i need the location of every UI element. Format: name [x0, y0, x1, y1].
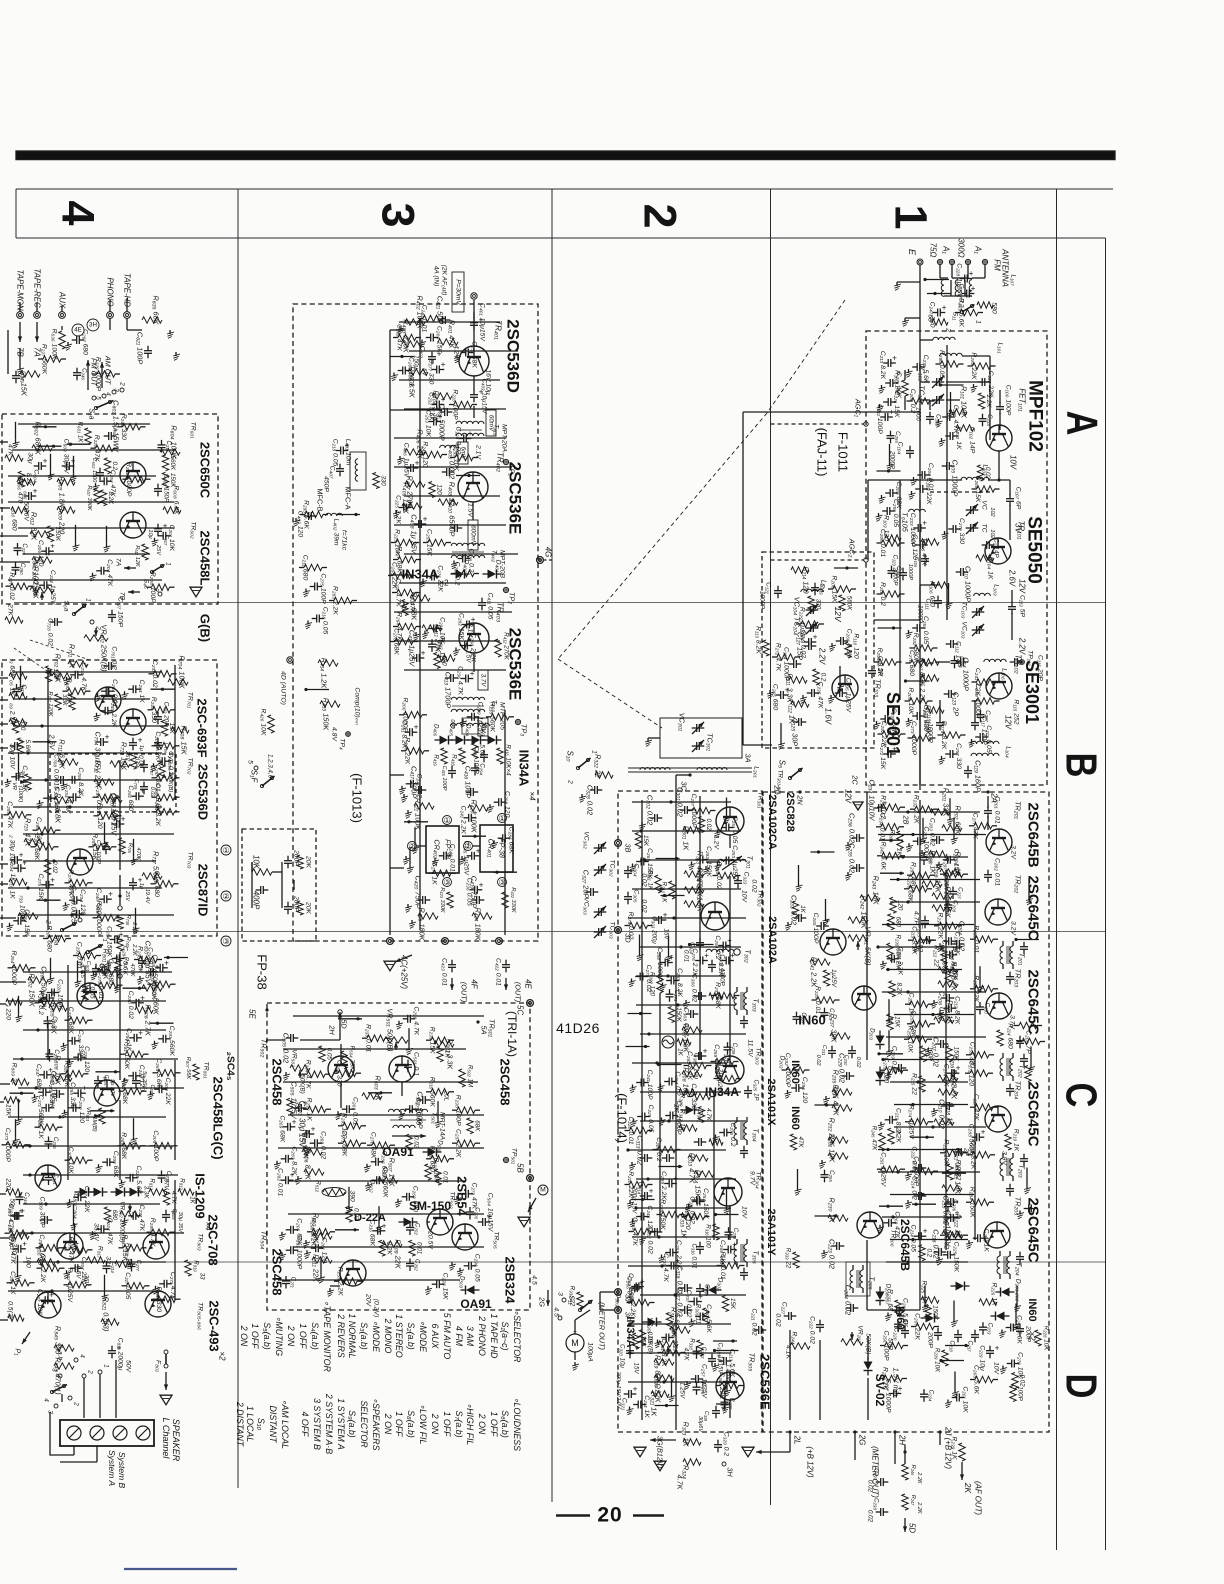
coil L101 primary — [933, 337, 955, 340]
capacitor C701 0.2 — [108, 662, 110, 670]
svg-text:+: + — [50, 875, 55, 884]
svg-text:C₂₄₁ 2.2K: C₂₄₁ 2.2K — [460, 806, 467, 835]
circled 3 b — [498, 878, 507, 887]
circled 1 b — [498, 814, 507, 823]
resistor R317 5.6K — [670, 1327, 690, 1333]
capacitor C237 0.02 — [880, 1478, 882, 1486]
long interconnect wires region3 top — [399, 321, 500, 323]
svg-text:2: 2 — [119, 381, 126, 386]
svg-text:C₂₃₉: C₂₃₉ — [731, 1043, 738, 1055]
svg-text:C₂₃₉ 4.7K: C₂₃₉ 4.7K — [662, 1253, 669, 1282]
capacitor C123 2000P — [899, 572, 907, 574]
svg-text:AGC₂: AGC₂ — [848, 538, 857, 558]
triangle out right — [190, 587, 202, 597]
resistor R410 68K — [410, 595, 430, 601]
bus rails region1 — [946, 345, 948, 620]
svg-text:2SC458LG(C): 2SC458LG(C) — [211, 1076, 226, 1159]
capacitor C709 0.02 — [140, 786, 148, 788]
svg-text:C₂₆₅ 150K: C₂₆₅ 150K — [646, 848, 653, 879]
svg-text:R₃₃₃ 22: R₃₃₃ 22 — [785, 1248, 792, 1269]
svg-text:R₂₀₁ 33K: R₂₀₁ 33K — [942, 788, 951, 818]
capacitor C202 0.01 — [984, 874, 992, 876]
svg-text:D₄₀₆: D₄₀₆ — [433, 724, 440, 737]
svg-text:200P: 200P — [293, 895, 300, 912]
transistor TR102 SE3001 — [986, 673, 1012, 699]
svg-text:C: C — [1056, 1083, 1105, 1108]
resistor R408 22 — [438, 499, 458, 505]
svg-text:0.2: 0.2 — [820, 673, 827, 682]
svg-text:R₂₁₉ 1K: R₂₁₉ 1K — [1013, 1129, 1020, 1152]
svg-text:3: 3 — [373, 202, 424, 227]
diodes D403-D406 row — [440, 736, 449, 745]
svg-text:R₂₁₈ 1K: R₂₁₈ 1K — [946, 1102, 955, 1127]
svg-text:VR₅₀₁ 50K(B): VR₅₀₁ 50K(B) — [386, 1008, 395, 1051]
svg-text:+: + — [415, 459, 420, 468]
resistor R222 1K — [942, 1231, 962, 1237]
capacitor C215 1u25V — [950, 1214, 952, 1222]
resistor R104 1K — [976, 555, 994, 561]
svg-text:0.02: 0.02 — [705, 818, 712, 831]
transistor TR601 — [120, 462, 146, 488]
svg-text:5E: 5E — [248, 1009, 257, 1019]
capacitor C305 0.02 — [624, 896, 632, 898]
component texture IF left column — [811, 851, 835, 853]
fold line row A/B — [14, 602, 1105, 604]
svg-text:₆₀₆ 50μ6V: ₆₀₆ 50μ6V — [23, 491, 30, 522]
svg-text:C₃₂₇ 20P: C₃₂₇ 20P — [582, 870, 591, 899]
input label box P=30mV — [452, 272, 464, 312]
svg-text:+: + — [43, 457, 48, 466]
svg-text:10V: 10V — [1009, 455, 1018, 470]
capacitor C123b 2P — [948, 690, 950, 698]
svg-text:C₂₆₉ 0.02: C₂₆₉ 0.02 — [320, 1131, 327, 1159]
fold line row C/D — [14, 1261, 1105, 1263]
svg-text:R₂₄₆: R₂₄₆ — [910, 1465, 916, 1476]
capacitor C730 0.01 — [138, 960, 146, 962]
svg-text:0.02: 0.02 — [867, 1510, 874, 1523]
resistor R102 1M — [902, 380, 908, 396]
svg-text:TP₄: TP₄ — [339, 738, 346, 750]
svg-text:2.6V: 2.6V — [1008, 569, 1017, 587]
transistor TR805 — [35, 1292, 61, 1318]
svg-text:C₈₀₉ 300P: C₈₀₉ 300P — [39, 1196, 46, 1228]
diode D302 — [708, 1286, 717, 1295]
capacitor C203 0.02 — [936, 836, 938, 844]
diode D206 — [876, 1292, 885, 1301]
switch S6a cluster — [72, 612, 75, 615]
capacitor C421 50P — [442, 316, 444, 324]
svg-text:R₂₉₇ 1μ25V: R₂₉₇ 1μ25V — [943, 857, 950, 893]
svg-text:3: 3 — [557, 1292, 564, 1296]
svg-text:1: 1 — [85, 598, 92, 601]
svg-text:C₂₂₂ 0.02: C₂₂₂ 0.02 — [809, 1316, 816, 1344]
capacitor C317 0.02 — [684, 1306, 686, 1314]
preamp dashed box — [2, 414, 218, 604]
svg-text:15K: 15K — [894, 1016, 901, 1028]
resistor R206 10K — [922, 881, 942, 887]
svg-text:4 OFF: 4 OFF — [300, 1412, 310, 1438]
coil T0105 — [909, 509, 926, 512]
svg-text:D₅₀₁: D₅₀₁ — [437, 1140, 444, 1152]
svg-text:TR₇₀₃: TR₇₀₃ — [187, 851, 194, 868]
resistor R425 180K — [418, 913, 438, 919]
svg-text:C₂₈₆ 68K: C₂₈₆ 68K — [508, 827, 515, 855]
svg-text:15V: 15V — [633, 1362, 640, 1374]
svg-text:C₄₀₁ 10μ15V: C₄₀₁ 10μ15V — [479, 303, 486, 342]
svg-text:TR₄₀₂: TR₄₀₂ — [496, 452, 505, 472]
capacitor C210 0.02 — [946, 1102, 948, 1110]
switch selector S1a cluster — [87, 360, 89, 390]
svg-text:C₂₈₈ 22K: C₂₈₈ 22K — [925, 477, 932, 505]
svg-text:+: + — [704, 951, 709, 960]
svg-text:C₂₈₄ 15K: C₂₈₄ 15K — [23, 909, 30, 937]
svg-text:2SC-493: 2SC-493 — [207, 1300, 222, 1351]
transistor TR702 — [120, 709, 146, 735]
transformer T204 — [997, 1256, 1000, 1274]
screw terminal 3 — [113, 1426, 127, 1440]
resistor R421 100K — [414, 803, 434, 809]
svg-text:10μ: 10μ — [147, 529, 153, 538]
capacitor C708b 0.0015 — [60, 776, 62, 784]
svg-text:D₄₀₅: D₄₀₅ — [449, 724, 456, 737]
svg-text:+: + — [730, 951, 735, 960]
resistor R237 39K — [830, 1033, 850, 1039]
svg-text:2SC828: 2SC828 — [784, 792, 796, 832]
svg-text:R₆₀₅ 1.8K: R₆₀₅ 1.8K — [58, 476, 67, 508]
arrow P1 — [22, 1332, 30, 1344]
resistor R205 1K — [897, 831, 903, 849]
long interconnect wires preamp — [18, 423, 150, 425]
diode D301 — [686, 1106, 695, 1115]
diodes D801-804 — [80, 1188, 89, 1197]
oscillator dashed box — [762, 552, 874, 748]
svg-text:C₂₆₅ 100P: C₂₆₅ 100P — [812, 913, 819, 944]
diode D501 — [428, 1148, 437, 1157]
resistor R203 1K — [929, 851, 947, 857]
svg-text:T₃₀₁: T₃₀₁ — [746, 856, 755, 869]
grid header line bottom — [16, 237, 1106, 239]
transistor TR803 — [57, 1233, 83, 1259]
connector bottom b — [442, 938, 449, 945]
svg-text:1K: 1K — [189, 1196, 196, 1204]
svg-text:C₂₃₈: C₂₃₈ — [986, 414, 993, 426]
transistor TR804 — [143, 1233, 169, 1259]
resistor R707 120K — [55, 694, 61, 710]
svg-text:C₂₁₇: C₂₁₇ — [967, 1341, 974, 1353]
svg-text:C₂₆₀ 2.2K: C₂₆₀ 2.2K — [470, 633, 477, 662]
svg-text:D₂₀₆,₂₀₇: D₂₀₆,₂₀₇ — [885, 1284, 892, 1306]
svg-text:2SC458L: 2SC458L — [198, 531, 213, 586]
terminal 4A — [471, 293, 477, 299]
svg-text:∘SELECTOR: ∘SELECTOR — [512, 1310, 522, 1363]
transistor TR202 2SC645C — [985, 899, 1011, 925]
long interconnect wires IF strip — [894, 811, 980, 813]
svg-text:50K(B): 50K(B) — [299, 1074, 306, 1093]
svg-text:C₂₄₄: C₂₄₄ — [23, 1192, 30, 1204]
svg-text:50V: 50V — [125, 1360, 132, 1374]
resistor R229 10K — [942, 1350, 948, 1366]
resistor R845 330 — [54, 1345, 74, 1351]
svg-text:C₂₀₁ 0.01: C₂₀₁ 0.01 — [994, 796, 1001, 824]
resistor R232 22K — [828, 1137, 848, 1143]
svg-text:DISTANT: DISTANT — [268, 1406, 278, 1444]
svg-text:5D: 5D — [908, 1523, 917, 1533]
transformer T301 — [718, 859, 746, 862]
svg-text:₀₅ 1K: ₀₅ 1K — [9, 680, 16, 696]
region2 bus wires — [675, 792, 677, 1430]
resistor R642 100 — [32, 557, 52, 563]
svg-text:+: + — [441, 360, 446, 369]
svg-text:C₃₂₃: C₃₂₃ — [743, 872, 750, 885]
svg-text:SE5050: SE5050 — [1024, 516, 1045, 584]
switch S8a — [86, 950, 89, 953]
component texture IF stage rows — [882, 804, 900, 811]
svg-text:C₂₀₈ 560K: C₂₀₈ 560K — [408, 357, 415, 388]
resistor R302 120 — [657, 975, 663, 993]
svg-text:680: 680 — [441, 655, 448, 666]
svg-text:3.2V: 3.2V — [1010, 921, 1017, 936]
capacitor C706 — [154, 742, 162, 744]
svg-text:R₂₄₂ 150K: R₂₄₂ 150K — [860, 896, 869, 930]
svg-text:+: + — [414, 723, 419, 732]
resistor R407 270K — [405, 481, 425, 487]
capacitor C112 14P — [950, 640, 952, 648]
capacitor C713 1u25V — [129, 882, 137, 884]
svg-text:MFC-A: MFC-A — [344, 486, 353, 509]
svg-text:0.02: 0.02 — [855, 1057, 861, 1069]
svg-text:f=71kc: f=71kc — [341, 530, 348, 551]
svg-text:(0.2V): (0.2V) — [373, 1299, 380, 1318]
pot VR101 250K — [30, 587, 54, 593]
resistor R405 1.5K — [408, 369, 428, 375]
capacitor C808 30u35V — [162, 1214, 170, 1216]
svg-text:C₂₁₁ 100P: C₂₁₁ 100P — [876, 404, 883, 434]
svg-text:C₂₉₅ 330: C₂₉₅ 330 — [69, 1082, 76, 1108]
coil L104 double — [971, 741, 999, 744]
svg-text:2 ON: 2 ON — [383, 1413, 393, 1435]
long interconnect wires region2 — [632, 801, 731, 803]
svg-text:C₂₂₀ 5.6K: C₂₂₀ 5.6K — [705, 1304, 712, 1333]
svg-text:R₃₀₁ 1K: R₃₀₁ 1K — [682, 826, 691, 852]
trimmer TC104 — [810, 624, 812, 632]
resistor R816 33 — [37, 1259, 55, 1265]
diode D402 — [456, 570, 465, 579]
transistor TR501 — [389, 1056, 415, 1082]
resistor R713 10K — [102, 797, 122, 803]
svg-text:TR₈₀₁: TR₈₀₁ — [203, 1062, 210, 1079]
svg-text:TR₂₀₃: TR₂₀₃ — [1014, 969, 1023, 988]
svg-text:VC₃₀₂: VC₃₀₂ — [583, 831, 590, 849]
svg-text:C₈₁₁ 2000μ: C₈₁₁ 2000μ — [117, 1338, 124, 1371]
svg-text:R₄₁₈: R₄₁₈ — [451, 754, 458, 766]
capacitor C313 0.02 — [644, 1154, 646, 1162]
svg-text:5 FM AUTO: 5 FM AUTO — [442, 1313, 452, 1360]
component texture region3 left lower — [304, 564, 322, 570]
capacitor C504 10u15V — [482, 1218, 484, 1226]
svg-text:R₂₂₈ 10K: R₂₂₈ 10K — [1043, 1326, 1050, 1351]
svg-text:4D (AUTO): 4D (AUTO) — [280, 671, 287, 705]
svg-text:C₂₃₅ 5.6K: C₂₃₅ 5.6K — [922, 355, 929, 384]
circled 2 a — [408, 842, 417, 851]
coil T205 bottom — [850, 1270, 853, 1288]
resistor R230 1K — [828, 1215, 848, 1221]
capacitor C801 0.5 — [92, 968, 100, 970]
svg-text:15K: 15K — [642, 835, 649, 847]
svg-text:1: 1 — [886, 204, 937, 229]
resistor 580 — [977, 302, 993, 308]
svg-text:R₄₁₅ 150K: R₄₁₅ 150K — [322, 698, 331, 732]
svg-text:1 LOCAL: 1 LOCAL — [245, 1406, 255, 1442]
svg-text:102: 102 — [989, 507, 995, 517]
resistor R416 10Kx4 — [497, 748, 503, 764]
resistor R608 6.8K — [163, 507, 181, 513]
resistor R715 47K — [24, 839, 44, 845]
svg-text:0.01: 0.01 — [137, 755, 144, 767]
svg-text:C₃₂₀ 10μ: C₃₂₀ 10μ — [619, 1344, 626, 1368]
capacitor C419 750P — [476, 896, 478, 904]
svg-text:②: ② — [222, 892, 229, 901]
capacitor C403 10u15V — [470, 394, 478, 396]
capacitor C728 0.02 — [54, 618, 56, 626]
svg-text:15K: 15K — [168, 723, 175, 735]
svg-text:C₂₆₇ 1000P: C₂₆₇ 1000P — [675, 1100, 682, 1135]
svg-text:2 ON: 2 ON — [239, 1325, 249, 1347]
svg-text:∘AM LOCAL: ∘AM LOCAL — [280, 1399, 290, 1449]
svg-text:VC₃₀₃: VC₃₀₃ — [583, 897, 590, 915]
svg-text:TP₅₀₁: TP₅₀₁ — [511, 1148, 518, 1164]
resistor R711 6.8K — [58, 759, 78, 765]
svg-text:D: D — [1056, 1374, 1105, 1399]
resistor R606 470 — [17, 479, 35, 485]
gang linkage dashed diagonal upper — [767, 300, 845, 413]
capacitor C707 0.04 — [140, 764, 148, 766]
resistor R415 150K — [320, 701, 340, 707]
svg-text:+: + — [649, 1187, 654, 1196]
svg-text:+: + — [476, 846, 481, 855]
transistor TR201 2SC645B — [986, 829, 1012, 855]
svg-text:1K: 1K — [444, 1050, 451, 1058]
resistor R307 68K — [682, 1027, 702, 1033]
svg-text:MPF102: MPF102 — [1025, 380, 1046, 452]
svg-text:+: + — [108, 890, 113, 899]
svg-text:+: + — [698, 1292, 703, 1301]
testpoint TP501 — [503, 1157, 508, 1162]
svg-text:TC: TC — [981, 523, 988, 532]
svg-text:C₂₅₇ 330: C₂₅₇ 330 — [955, 743, 962, 769]
svg-text:C₂₆₆ 8.2K: C₂₆₆ 8.2K — [846, 629, 853, 658]
component texture preamp box — [15, 422, 17, 440]
svg-text:₇₁₈ 1K: ₇₁₈ 1K — [9, 881, 16, 899]
svg-text:150K: 150K — [932, 1305, 939, 1320]
svg-text:C₂₄₃ 0.2: C₂₄₃ 0.2 — [167, 751, 174, 775]
transformer T203 — [1000, 1158, 1003, 1176]
svg-text:R₂₄₅ 47K: R₂₄₅ 47K — [871, 1126, 878, 1151]
resistor R409 1.5K — [402, 503, 422, 509]
capacitor C222 0.02 — [816, 1324, 824, 1326]
svg-text:11.5V: 11.5V — [747, 1039, 754, 1058]
resistor R216 6.8K — [938, 1075, 958, 1081]
resistor R401 47K — [438, 339, 458, 345]
svg-text:(TRI-1A): (TRI-1A) — [505, 1011, 519, 1057]
svg-text:2SC458: 2SC458 — [498, 1059, 513, 1106]
screw terminal 4 — [136, 1426, 150, 1440]
svg-text:∘TAPE MONITOR: ∘TAPE MONITOR — [322, 1300, 332, 1372]
svg-text:150K: 150K — [54, 527, 61, 542]
svg-text:R₂₇₄ 1μ25V: R₂₇₄ 1μ25V — [908, 1105, 915, 1141]
svg-text:C₂₀₂ 0.01: C₂₀₂ 0.01 — [994, 858, 1001, 886]
capacitor C411 0.05 — [478, 602, 486, 604]
svg-text:0.5(3): 0.5(3) — [7, 1301, 14, 1319]
resistor R107 8.2K — [921, 659, 939, 665]
trimmer TC102 — [970, 524, 972, 532]
resistor R601 1K — [85, 428, 91, 444]
svg-text:C₂₈₂ 15K: C₂₈₂ 15K — [458, 613, 465, 640]
svg-text:1,2,3,4,6: 1,2,3,4,6 — [267, 754, 274, 779]
transistor TR402 2SC536E — [458, 472, 488, 502]
resistor R701 1K — [68, 661, 88, 667]
svg-text:5B: 5B — [516, 1163, 525, 1173]
transistor TR602 — [120, 512, 146, 538]
svg-text:C₂₄₆ 0.01: C₂₄₆ 0.01 — [449, 844, 456, 872]
transformer T304 — [734, 1122, 737, 1140]
svg-text:T₃₀₃: T₃₀₃ — [752, 998, 761, 1011]
svg-text:C₂₄₁ 100P: C₂₄₁ 100P — [646, 1069, 653, 1100]
transistor TR304 2SA101Y — [714, 1178, 742, 1206]
svg-text:1 TAPE HD: 1 TAPE HD — [489, 1314, 499, 1359]
svg-text:2 ON: 2 ON — [430, 1413, 440, 1435]
svg-text:TR₁₀₂: TR₁₀₂ — [1014, 654, 1023, 673]
svg-text:C₂₃₄ 5.6K: C₂₃₄ 5.6K — [64, 785, 71, 814]
grid header line top — [16, 188, 1113, 190]
svg-text:S₁₀: S₁₀ — [256, 1418, 266, 1431]
svg-text:47K: 47K — [952, 969, 959, 981]
svg-text:+: + — [20, 1206, 25, 1215]
svg-text:1 OFF: 1 OFF — [442, 1412, 452, 1438]
svg-text:R₅₁₂: R₅₁₂ — [315, 1180, 322, 1193]
svg-text:R₈₁₃: R₈₁₃ — [179, 1178, 186, 1190]
svg-text:C₄₂₃ 0.01: C₄₂₃ 0.01 — [441, 958, 448, 986]
svg-text:1 OFF: 1 OFF — [394, 1412, 404, 1438]
transistor TR upper left — [35, 1165, 61, 1191]
svg-text:R₁₁₅ 252: R₁₁₅ 252 — [1013, 699, 1020, 724]
arrow 7B — [19, 322, 21, 342]
capacitor C101 1000P — [926, 416, 934, 418]
svg-text:C₁₂₃ 2P: C₁₂₃ 2P — [952, 692, 961, 716]
svg-text:C₇₀₁ 0.2: C₇₀₁ 0.2 — [111, 646, 118, 670]
svg-text:IN34A: IN34A — [517, 750, 532, 787]
resistor R221 10K — [942, 1185, 962, 1191]
column divider 4/3 — [237, 189, 239, 1488]
capacitor C605 150P — [154, 488, 162, 490]
input jack TAPE-REC — [34, 312, 41, 319]
FP-38 input filter dashed box — [242, 829, 316, 941]
svg-text:4E: 4E — [524, 979, 533, 989]
svg-text:AGC₁: AGC₁ — [854, 398, 863, 418]
svg-text:①: ① — [443, 816, 450, 825]
resistor R817 33 — [87, 1257, 105, 1263]
resistor R612 82K — [30, 531, 50, 537]
svg-text:2 PHONO: 2 PHONO — [477, 1315, 487, 1356]
svg-text:6 AUX: 6 AUX — [430, 1323, 440, 1349]
svg-text:2SC536E: 2SC536E — [506, 462, 525, 535]
svg-text:3: 3 — [51, 1368, 58, 1372]
capacitor C122 5P — [868, 670, 876, 672]
svg-text:75Ω: 75Ω — [929, 243, 938, 258]
svg-text:D₄₀₄: D₄₀₄ — [465, 724, 472, 737]
svg-text:C₂₃₆: C₂₃₆ — [165, 1171, 172, 1183]
svg-text:5D: 5D — [340, 1019, 349, 1029]
svg-text:F₈₀₁: F₈₀₁ — [155, 1360, 162, 1372]
